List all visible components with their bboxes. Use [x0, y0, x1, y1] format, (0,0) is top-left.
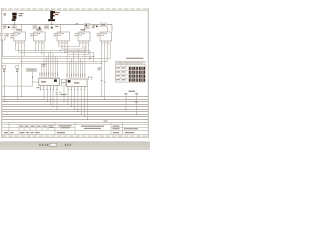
tag box K3 [45, 26, 49, 29]
bus rail 5 [2, 106, 148, 108]
annotation text below F6 drops [98, 68, 102, 71]
junction bus tap 1 [125, 109, 126, 110]
X1 dark terminal cells row 4 [129, 79, 145, 82]
cable label W1 [26, 69, 36, 72]
status bar icons [40, 144, 49, 146]
label text of T1 [4, 13, 24, 16]
drops from U1 outputs to buses [44, 91, 57, 110]
mesh verticals feeding U2 top pins [67, 47, 85, 79]
annotation text near long drops [129, 91, 136, 92]
supply rail wire L+ [2, 24, 112, 26]
bus tap label 1 [125, 93, 128, 94]
bus tap wire 1 [125, 95, 127, 110]
wire F5 pin drops into mesh [80, 46, 89, 55]
wire F6 pin drops into mesh [107, 46, 110, 62]
frame top tick band [2, 8, 148, 10]
title block row line 3 right [111, 127, 148, 129]
X1 dark terminal cells row 1 [129, 67, 145, 70]
relay symbol dot in U1 [54, 79, 57, 81]
wire left feed at y=86 [2, 82, 33, 86]
arrowheads under U1 [40, 89, 58, 91]
motor starter F5 [75, 28, 90, 41]
node dot A [8, 26, 10, 28]
indicator triangle 2 [51, 26, 54, 28]
junction on W1 wire [32, 77, 33, 78]
bottom pins U2 with arrows [68, 87, 85, 90]
bus rail 3 [2, 101, 148, 103]
title block vertical dividers [9, 123, 123, 135]
long drop wire to bus 1 [101, 46, 103, 97]
rail annotation text group 4 [92, 25, 95, 28]
drops from U2 outputs to buses (nested cascade) [64, 87, 88, 120]
motor starter F1 (left edge, partial) [0, 33, 9, 46]
motor starter F6 [97, 27, 112, 41]
bus rail 10 [2, 119, 148, 121]
junction on rail at T2 [51, 24, 52, 25]
X1 row label texts [116, 67, 125, 80]
bus tap wire 2 [136, 95, 138, 115]
pins of F2 [16, 41, 25, 46]
rail annotation text group 1 [3, 26, 6, 29]
tag box K1 [12, 26, 16, 29]
PLC output module U1 [39, 78, 60, 85]
wire mesh horizontal m1 [16, 51, 90, 59]
net label text above bus 1 [61, 94, 67, 95]
pins of F3 [35, 41, 44, 46]
title block top line [2, 122, 148, 124]
capacitor symbols right of U2 [88, 76, 93, 80]
rail annotation text group 3 [76, 23, 78, 25]
tag text K1 [13, 27, 16, 28]
wire mesh horizontal m5 [22, 61, 108, 63]
bus rail 2 [2, 99, 148, 101]
frame right border [147, 8, 149, 138]
pin label text above U1 [40, 73, 58, 76]
wire mesh horizontal m3 [2, 56, 94, 58]
wire F3 pin drops into mesh [35, 46, 44, 57]
motor starter F3 [30, 29, 45, 41]
terminal strip X1 [116, 62, 146, 83]
rail annotation text group 2 [55, 26, 58, 27]
tick marks on long drops [101, 81, 106, 83]
title block cell texts [4, 125, 138, 133]
valve tag box Y1 [84, 23, 90, 28]
pin number texts of starters [16, 41, 109, 44]
wire F2 pin drops [3, 46, 25, 62]
bus tap label 2 [135, 93, 138, 94]
mesh junction dots [21, 50, 105, 100]
title block row line 4 [2, 130, 148, 132]
transformer T2 (black symbol) [48, 11, 55, 21]
bus rail 9 [2, 116, 148, 118]
title block bottom line [2, 134, 148, 136]
X1 white pin slits [130, 67, 144, 81]
tag box K2 [33, 26, 37, 29]
wire F4 pin drops into mesh [59, 46, 68, 55]
small text on bus tap [135, 101, 138, 102]
pins of F6 [102, 41, 111, 46]
pins of F4 [59, 41, 68, 46]
bus rail 7 [2, 111, 148, 113]
PLC output module U2 [67, 79, 88, 87]
motor starter F4 [54, 25, 70, 41]
junction on rail at T1 [14, 24, 15, 25]
wire T1 down [13, 21, 15, 25]
long drop wire to bus 2 [104, 46, 106, 100]
bus rail 6 [2, 109, 148, 111]
terminal strip X1 header text [126, 58, 144, 59]
limit switch S2 [16, 66, 19, 100]
annotation text left of U1 [42, 64, 46, 67]
junction dots S1 S2 on buses [4, 101, 5, 102]
title block row line 3 [2, 127, 75, 129]
junction bus tap 2 [136, 114, 137, 115]
X1 dark terminal cells row 3 [129, 75, 145, 78]
pins of F5 [80, 41, 89, 46]
transformer T1 (black symbol) [12, 13, 17, 21]
top pin stubs U1 [40, 77, 58, 79]
motor starter F2 [10, 25, 25, 41]
status bar field [50, 143, 57, 146]
status bar icons right [65, 144, 71, 146]
relay symbol dot in U2 [68, 80, 71, 82]
wire mesh horizontal m6 [2, 63, 102, 65]
status bar [0, 142, 150, 150]
terminal pair X0 between modules [61, 79, 65, 86]
indicator triangle 1 [38, 26, 41, 29]
frame left border [1, 8, 3, 138]
rail end drop wire [111, 25, 113, 32]
title block row line 2 [2, 124, 148, 126]
bus rail 1 [2, 96, 148, 98]
arrowheads under U2 [67, 89, 85, 91]
wire mesh horizontal m4 [2, 58, 110, 60]
node dot B [96, 26, 98, 28]
annotation above title block [104, 121, 108, 122]
wire W1 to U1 [33, 71, 39, 82]
wire upper cross runs [59, 47, 89, 55]
tag box K4 [100, 23, 106, 27]
wire T2 down [51, 21, 53, 25]
bus rail 8 [2, 114, 148, 116]
pin label text above U2 [67, 74, 85, 77]
frame bottom tick band [2, 135, 148, 137]
bus rail 4 [2, 104, 148, 106]
ground reference marks under U1 right pins [55, 92, 61, 95]
wire mesh horizontal m2 [19, 53, 94, 62]
wire mesh drop to bus at left [21, 62, 23, 97]
junction dots on buses [21, 96, 88, 120]
X1 dark terminal cells row 2 [129, 71, 145, 74]
label text of T2 [55, 12, 60, 15]
bottom pins U1 with arrows [41, 86, 58, 90]
cable size text near left feed [37, 87, 40, 88]
mesh verticals feeding U1 top pins [42, 51, 58, 77]
limit switch S1 [3, 66, 6, 102]
